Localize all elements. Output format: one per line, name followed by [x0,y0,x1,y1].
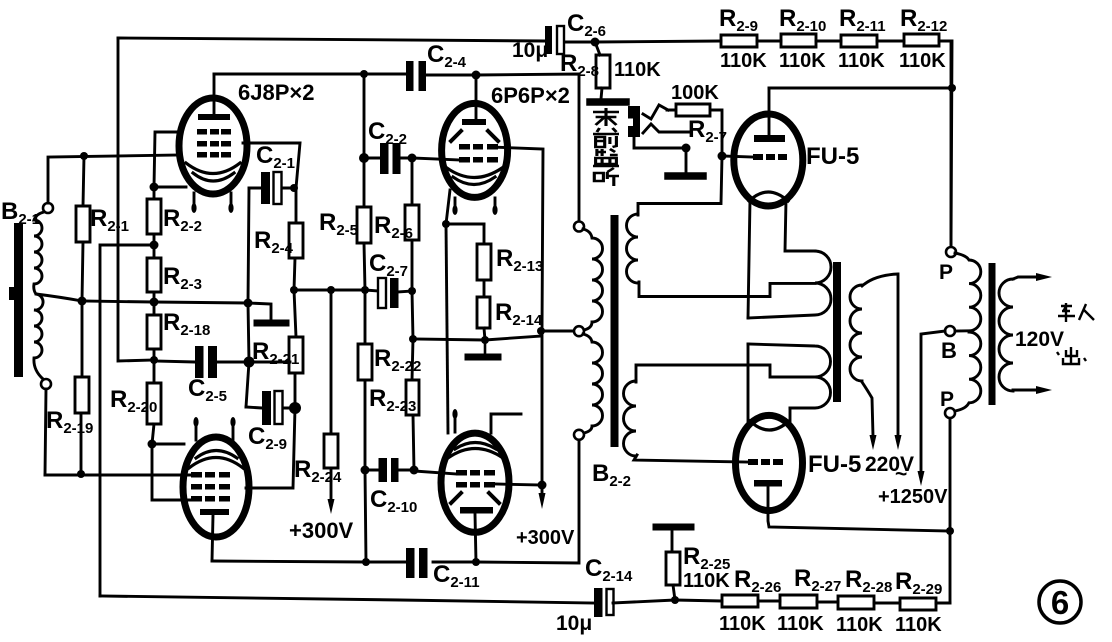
svg-text:110K: 110K [720,50,767,72]
ground G3 [590,98,626,106]
wire secondary lower top lead [636,365,815,382]
tube V3 anode bar [462,119,486,125]
wire g3 of V1 to cathode node [154,132,179,187]
resistor R2-5 [357,74,371,290]
terminal bottom of B2-1 [41,379,51,389]
wire jack sleeve to ground node [634,137,686,173]
svg-text:110K: 110K [719,613,766,635]
tube V5 FU-5 envelope [734,114,803,206]
tube V5 anode bar [754,135,785,142]
wire feedback column x118 from top rail to R2-18 bottom [118,38,154,361]
terminal top of B2-1 [43,203,53,213]
filament transformer core [833,262,841,402]
transformer B2-2 core [611,215,619,447]
ground G1 [257,320,286,327]
arrow +300V right [539,493,546,509]
output transformer primary terminal P top [946,247,956,257]
wire V5 filament leg left [748,200,750,318]
top rail y40 [118,38,952,247]
tube V3 pins [455,198,495,209]
wire output bottom lead [1013,389,1040,392]
resistor R2-14 [477,297,490,340]
resistor R2-2 [147,187,161,245]
wire V5 filament leg right [785,200,815,251]
hanzi shu-ru (output transformer input) [1058,303,1075,322]
bottom rail [100,596,594,603]
wire ground line y340 [413,336,541,340]
resistor R2-25 [666,530,680,600]
tube V1 anode bar [198,114,230,120]
ground G4 [668,172,703,180]
capacitor C2-2 [380,143,389,174]
wire g2 of V3 to +300V column [490,147,543,331]
svg-text:6P6P×2: 6P6P×2 [491,83,570,108]
svg-text:FU-5: FU-5 [806,143,859,170]
wire g2 of V1 to C2-1 node [243,143,300,188]
tube V1 cathode arcs [186,163,240,181]
svg-text:120V: 120V [1015,328,1064,351]
svg-text:P: P [940,388,954,411]
transformer B2-2 primary terminal top [574,222,584,232]
transformer B2-2 secondary lower [623,381,636,456]
resistor R2-9 [721,35,757,47]
tube V3 anode lead [475,75,478,119]
wire column x249 (C2-1 left down to C2-9) [246,188,249,407]
hanzi chu (output transformer output) [1057,347,1086,364]
resistor R2-24 [324,290,338,500]
wire B2-1 top terminal up and right to grid of V1 [48,155,180,203]
svg-text:6: 6 [1051,584,1069,621]
svg-text:110K: 110K [614,59,661,81]
svg-text:110K: 110K [836,614,883,636]
wire output top lead [1013,277,1040,279]
resistor R2-27 [780,595,817,608]
wire bias line y291 [294,290,378,291]
transformer B2-2 primary winding [583,229,603,330]
transformer B2-2 primary terminal mid [574,326,584,336]
tube V4 6P6P envelope [441,433,509,532]
wire V6 anode to P rail bottom [768,486,950,603]
hanzi ting (monitor text) [594,168,619,186]
hanzi jian (monitor text) [593,149,619,166]
output transformer primary terminal B [945,326,955,336]
wire 220V lead 1 [862,382,873,436]
resistor R2-26 [722,595,758,607]
tube V4 pins [455,414,521,433]
resistor R2-10 [781,34,816,47]
transformer B2-2 primary terminal bottom [574,430,584,440]
wire grid node V5 [722,156,752,157]
output transformer secondary winding [999,279,1013,391]
resistor R2-23 [406,339,419,470]
tube V3 beam plates [451,131,498,141]
tube V2 pins [196,424,233,440]
wire cathode column left (R2-2 bottom to bottom rail) [100,245,154,596]
wire R2-22 bottom to C2-11 line [365,470,366,562]
wire V6 filament leg right [789,408,792,424]
svg-text:10μ: 10μ [512,39,548,62]
svg-text:100K: 100K [671,82,719,104]
wire C2-11 line y562 [212,440,579,563]
capacitor C2-9 [262,391,271,425]
tube V5 filament arc [749,192,788,201]
tube V6 anode bar [754,480,782,487]
jack switch arm upper [643,105,668,119]
tube V3 6P6P envelope [442,103,508,197]
resistor R2-8 [595,42,610,99]
output transformer primary winding [955,253,981,331]
filament winding lower [748,344,830,408]
resistor R2-13 [477,224,491,297]
svg-text:+1250V: +1250V [878,486,948,508]
wire secondary lower bottom lead [634,455,747,462]
tube V5 grid dashes [753,154,787,160]
filament transformer mains winding [850,285,862,381]
resistor R2-7 100K [667,104,722,156]
svg-text:110K: 110K [899,50,946,72]
capacitor C2-14 [594,588,603,617]
resistor R2-22 [358,290,372,470]
wire B2-1 center tap to node line [36,294,82,301]
transformer B2-2 secondary upper [627,214,639,283]
ground G5 [656,524,691,531]
arrow 220V-1 [870,435,877,450]
anode rail V1-V3 y74 [214,74,579,221]
svg-text:FU-5: FU-5 [808,451,861,478]
wire B2-1 bottom terminal down to grid wire of V2 [45,389,46,475]
wire g1 of V3 [412,158,460,160]
svg-text:110K: 110K [779,50,826,72]
tube V1 anode lead [213,74,216,114]
svg-text:~: ~ [895,463,907,486]
figure number 6 [1039,581,1081,623]
bottom chain rail [613,600,950,603]
tube V2 6J8P envelope [183,437,249,537]
wire 220V lead 2 [862,274,898,436]
tube V1 pins [194,193,231,207]
wire +300V column taps [542,331,573,494]
capacitor C2-11 [406,548,415,578]
resistor R2-28 [838,596,874,609]
wire V6 filament leg left [747,344,750,426]
tube V4 cathode arcs [448,443,503,459]
resistor R2-6 [405,158,419,291]
arrow +300V left [328,499,335,514]
tube V5 anode lead [768,88,771,135]
svg-text:P: P [939,261,953,284]
arrow output top [1036,273,1052,281]
tube V6 FU-5 envelope [736,415,803,510]
node line y302 [82,301,271,320]
svg-text:110K: 110K [895,614,942,636]
resistor R2-20 [147,360,161,444]
wire V5 anode to P rail [769,42,952,247]
tube V4 anode bar [460,507,493,514]
wire cathode V1 stub [154,186,186,189]
capacitor C2-6 [545,26,552,54]
tube V4 grid dashes [456,470,495,488]
resistor R2-29 [900,598,936,610]
svg-text:10μ: 10μ [556,612,592,635]
resistor R2-12 [904,34,939,46]
capacitor C2-7 [378,278,386,308]
capacitor C2-1 [261,172,270,204]
resistor R2-1 [76,156,90,301]
resistor R2-18 [147,302,161,360]
arrow +1250V [918,471,925,486]
tube V2 grid dashes [191,472,230,502]
wire cathode column V3-V4 [446,224,448,433]
output transformer core [989,263,996,405]
transformer B2-1 secondary winding [34,212,44,379]
svg-text:B: B [941,338,957,363]
wire g1 of V4 [414,470,456,474]
resistor R2-3 [147,245,161,302]
wire g3 of V2 and cathode of V2 [152,444,192,500]
tube V1 grid dashes [197,129,231,158]
capacitor C2-5 [195,346,204,378]
svg-text:110K: 110K [838,50,885,72]
wire g2 of V2 to C2-9 node [246,408,295,488]
resistor R2-11 [841,35,877,47]
output transformer primary terminal P bottom [945,408,955,418]
tube V6 filament arc [750,421,789,430]
tube V3 cathode arcs [447,168,502,185]
wire grid line V2 (y475) [45,474,192,477]
capacitor C2-4 [406,61,414,91]
resistor R2-19 [75,301,89,474]
svg-text:6J8P×2: 6J8P×2 [238,80,314,105]
wire g2 of V4 [495,484,542,485]
arrow output bottom [1036,386,1052,394]
svg-text:110K: 110K [777,613,824,635]
resistor R2-4 [289,188,303,290]
wire secondary upper top lead [638,156,722,215]
wire R2-6/C2-7 node down to R2-23 [412,291,413,339]
tube V2 anode bar [200,509,229,515]
transformer B2-1 core [14,223,23,377]
tube V2 cathode arcs [189,451,243,469]
resistor R2-21 [289,290,303,408]
hanzi mo (monitor text) [593,108,619,126]
svg-text:110K: 110K [683,570,730,592]
wire secondary upper bottom lead [639,282,815,297]
wire B tap to +1250V [921,331,945,472]
arrow 220V-2 [895,435,902,450]
hanzi qian (monitor text) [593,128,619,147]
filament winding upper [748,251,831,318]
svg-text:+300V: +300V [289,518,354,543]
capacitor C2-10 [379,458,388,482]
wire cathode V3 [446,190,484,224]
tube V1 6J8P envelope [179,98,247,194]
wire P bottom terminal column [949,419,952,531]
jack switch arm lower [643,124,689,133]
tube V3 grid dashes [459,144,498,163]
svg-text:+300V: +300V [516,527,575,549]
tube V6 grid dashes [748,459,783,465]
monitor jack body [628,106,640,137]
tube V4 beam plates [451,493,499,503]
tube V4 anode lead [475,514,476,562]
ground G2 [484,340,487,354]
wire V2 anode lead to C2-11 line [212,515,213,561]
